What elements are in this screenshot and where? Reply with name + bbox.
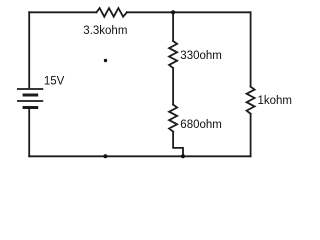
junction node at bottom of jog (181, 154, 185, 158)
wire middle branch (between R2 and R4) (172, 68, 174, 105)
node point (floating dot) (104, 59, 107, 62)
svg-text:1kohm: 1kohm (258, 95, 293, 107)
wire left side (top of battery) (28, 12, 30, 87)
battery V1 short plate 4 (24, 106, 37, 109)
svg-text:330ohm: 330ohm (180, 50, 222, 62)
resistor R3 1kohm (vertical zigzag) (247, 87, 255, 114)
resistor R1 3.3kohm (horizontal zigzag) (97, 8, 127, 17)
wire right side (top) (250, 12, 252, 86)
svg-text:680ohm: 680ohm (180, 119, 222, 131)
wire jog from R4 to bottom wire (173, 132, 183, 157)
resistor R4 680ohm (vertical zigzag) (169, 105, 177, 132)
resistor R2 330ohm (vertical zigzag) (169, 41, 177, 68)
junction node at top of middle branch (171, 10, 175, 14)
wire middle branch (top) (172, 12, 174, 41)
battery V1 long plate 1 (18, 88, 42, 90)
wire top-right segment (127, 11, 251, 13)
battery V1 long plate 3 (18, 100, 42, 102)
svg-text:15V: 15V (44, 76, 65, 88)
junction node on bottom wire (103, 154, 107, 158)
svg-text:3.3kohm: 3.3kohm (83, 25, 127, 37)
battery V1 short plate 2 (24, 94, 37, 97)
wire left side (below battery) (28, 109, 30, 156)
wire top-left segment (29, 11, 96, 13)
wire right side (bottom) (250, 114, 252, 157)
wire bottom (29, 155, 250, 157)
